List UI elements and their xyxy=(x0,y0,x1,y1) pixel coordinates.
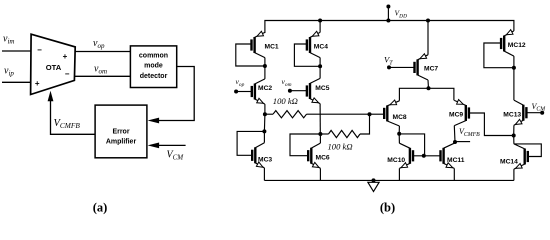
svg-text:mode: mode xyxy=(144,63,163,70)
transistor MC13 xyxy=(514,100,527,125)
wire MC2src to R1 xyxy=(265,113,273,115)
wire R1 to MC8 gate (crosses MC5 wire) xyxy=(307,113,370,115)
node V_CMFB junction xyxy=(453,140,457,144)
junction MC4 at VDD xyxy=(318,19,322,23)
wire MC1 gate loop xyxy=(236,44,265,66)
svg-text:MC3: MC3 xyxy=(258,157,272,164)
node MC8-MC10 junction xyxy=(397,132,401,136)
transistor MC5 xyxy=(307,78,320,103)
node MC7 drain junction xyxy=(427,86,431,90)
transistor MC14 xyxy=(514,144,528,169)
svg-text:OTA: OTA xyxy=(46,63,62,72)
transistor MC2 xyxy=(252,79,265,104)
svg-text:MC13: MC13 xyxy=(503,111,521,118)
svg-text:MC2: MC2 xyxy=(258,85,272,92)
svg-text:+: + xyxy=(35,79,40,88)
node MC2 source junction xyxy=(263,112,267,116)
wire v_op xyxy=(75,51,130,53)
wire MC8 drain down xyxy=(398,126,400,134)
svg-text:100 kΩ: 100 kΩ xyxy=(328,142,353,152)
transistor MC4 xyxy=(307,31,320,57)
resistor R2 100 kOhm xyxy=(329,130,361,137)
wire MC2 source down xyxy=(264,104,266,114)
arrow V_CM into error amplifier xyxy=(148,143,160,149)
wire MC8-MC9 source bus xyxy=(399,88,454,101)
wire V_CM input xyxy=(159,144,186,146)
transistor MC12 xyxy=(501,30,514,56)
wire MC6 source to ground xyxy=(319,168,321,180)
svg-text:(b): (b) xyxy=(380,201,395,215)
wire MC11 source to ground xyxy=(453,168,455,180)
wire MC10 source to ground xyxy=(398,168,400,180)
wire MC3 drain xyxy=(263,131,265,142)
wire MC3 source to ground xyxy=(263,168,265,181)
wire v_om xyxy=(74,75,130,77)
wire MC10 diode link xyxy=(399,134,424,156)
wire MC2 drain up xyxy=(264,66,266,79)
wire MC7 source up xyxy=(427,21,429,55)
wire MC4 gate loop xyxy=(294,44,320,66)
wire MC6 node to R2 xyxy=(320,133,328,135)
wire MC5 source down (crosses R1 wire) xyxy=(319,104,321,134)
svg-text:−: − xyxy=(65,70,70,79)
svg-text:MC4: MC4 xyxy=(314,44,328,51)
terminal V_T dot xyxy=(387,65,391,69)
svg-text:+: + xyxy=(63,52,68,61)
node R2 top junction xyxy=(368,112,372,116)
wire MC10-MC11 gate line xyxy=(413,155,440,157)
node VDD stub xyxy=(387,7,389,21)
node MC6 diode junction xyxy=(318,132,322,136)
junction ground xyxy=(372,178,376,182)
transistor MC6 xyxy=(308,143,320,168)
wire MC11 drain up xyxy=(453,142,456,143)
wire V_CMFB stub xyxy=(455,141,470,143)
wire v_ip input xyxy=(2,81,31,83)
wire MC13 source down xyxy=(513,125,515,135)
terminal v_om dot xyxy=(288,89,292,93)
svg-text:Amplifier: Amplifier xyxy=(106,138,137,145)
wire MC10 drain up xyxy=(398,134,400,144)
svg-text:MC11: MC11 xyxy=(447,157,465,164)
block Error Amplifier xyxy=(95,105,147,158)
wire detector to error amplifier xyxy=(159,67,195,121)
svg-text:MC12: MC12 xyxy=(508,42,526,49)
terminal v_op dot xyxy=(234,90,238,94)
wire MC12 drain xyxy=(513,56,515,68)
wire MC6 drain xyxy=(319,134,321,143)
block common mode detector xyxy=(130,46,176,88)
op-amp OTA body xyxy=(31,34,76,94)
wire MC7 drain down xyxy=(427,80,430,88)
wire MC3 gate loop xyxy=(237,131,264,155)
svg-text:MC9: MC9 xyxy=(449,112,463,119)
svg-text:MC7: MC7 xyxy=(424,65,438,72)
junction MC7 at VDD xyxy=(426,19,430,23)
wire v_im input xyxy=(2,50,31,52)
wire R2 to riser xyxy=(360,114,370,134)
wire MC9 gate to MC13 source xyxy=(469,113,514,136)
svg-text:MC6: MC6 xyxy=(316,155,330,162)
svg-text:MC5: MC5 xyxy=(315,85,329,92)
wire MC13 gate to V_CM xyxy=(526,112,542,114)
wire VDD rail xyxy=(265,21,514,34)
svg-text:MC8: MC8 xyxy=(393,114,407,121)
arrow V_CMFB into OTA xyxy=(48,91,54,102)
svg-text:MC10: MC10 xyxy=(387,157,405,164)
node MC4-MC5 junction xyxy=(318,64,322,68)
wire MC4 drain xyxy=(319,58,321,67)
svg-text:common: common xyxy=(139,53,168,60)
wire MC12 gate loop xyxy=(484,43,514,68)
transistor MC9 xyxy=(454,100,469,126)
resistor R1 100 kOhm xyxy=(273,111,307,118)
wire v_op to MC2 gate xyxy=(236,91,252,93)
transistor MC8 xyxy=(384,100,399,126)
wire MC4 source up xyxy=(319,21,321,33)
wire ground rail xyxy=(264,179,514,181)
wire V_CMFB feedback xyxy=(51,101,96,135)
wire MC14 gate loop xyxy=(514,144,541,157)
transistor MC1 xyxy=(252,31,265,57)
wire MC13 drain up xyxy=(513,68,515,100)
node MC1-MC2 junction xyxy=(263,64,267,68)
wire MC1 drain xyxy=(264,58,266,66)
node MC12-MC13 junction xyxy=(512,66,516,70)
svg-text:Error: Error xyxy=(112,128,129,135)
junction MC10 gate xyxy=(422,154,426,158)
ground symbol xyxy=(368,182,379,191)
svg-text:100 kΩ: 100 kΩ xyxy=(273,96,298,106)
junction VDD stub xyxy=(386,19,390,23)
svg-text:detector: detector xyxy=(140,73,168,80)
wire MC13src to MC14 drain xyxy=(513,136,515,144)
node MC13 source junction xyxy=(512,134,516,138)
svg-text:(a): (a) xyxy=(93,201,108,215)
wire v_om to MC5 gate xyxy=(290,90,307,92)
transistor MC3 xyxy=(252,143,264,168)
terminal VDD xyxy=(386,5,390,9)
wire MC5 drain up xyxy=(319,66,321,78)
transistor MC10 xyxy=(399,143,413,168)
node MC3 diode junction xyxy=(262,129,266,133)
transistor MC11 xyxy=(441,143,455,168)
terminal V_CM dot xyxy=(540,111,544,115)
svg-text:MC14: MC14 xyxy=(500,159,518,166)
svg-text:MC1: MC1 xyxy=(265,44,279,51)
wire MC9 drain down xyxy=(453,126,456,142)
svg-text:−: − xyxy=(37,46,42,55)
wire V_T to MC7 gate xyxy=(389,66,415,68)
wire R-node to MC8 gate xyxy=(370,113,385,115)
wire MC14 source to ground xyxy=(513,169,515,180)
wire MC2src to MC3 node xyxy=(263,114,266,131)
arrow into error amplifier (top) xyxy=(148,118,160,124)
transistor MC7 xyxy=(415,54,429,80)
wire MC6 gate loop xyxy=(290,134,320,156)
